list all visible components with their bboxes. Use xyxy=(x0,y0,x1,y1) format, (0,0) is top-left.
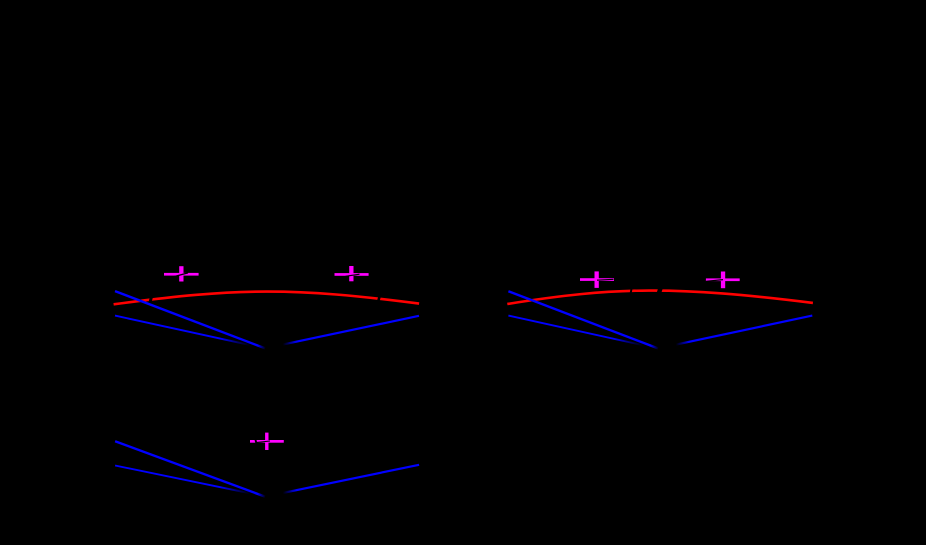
panel 1: incoming ray B xyxy=(115,316,250,346)
panel 2: errorbar marker M3 xyxy=(580,271,614,288)
panel 1: errorbar marker M2 xyxy=(335,266,369,281)
panel 2: errorbar marker M4 xyxy=(706,272,740,289)
panel 1: gap in arc (black ray crossing) at x=375 xyxy=(378,293,381,304)
panel 2: incoming ray A xyxy=(508,291,658,348)
panel 1: gap in arc (black ray crossing) at x=151 xyxy=(149,295,152,306)
panel 3: errorbar marker M5 xyxy=(250,433,284,450)
panel 3 (bottom-left): incoming ray A xyxy=(115,441,265,496)
panel 2: outgoing ray C xyxy=(659,316,812,349)
panel 1 (top-left): mirror arc xyxy=(114,292,420,305)
panel 2: gap in arc at x=660 xyxy=(658,285,662,296)
panel 3: outgoing ray C xyxy=(266,465,419,497)
panel 1: errorbar marker M1 xyxy=(164,266,199,281)
panel 2: gap in arc at x=631 xyxy=(630,286,632,297)
panel 2: incoming ray B xyxy=(508,316,643,346)
panel 3: incoming ray B xyxy=(115,466,250,494)
panel 2 (top-right): mirror arc xyxy=(507,291,813,304)
panel 1: outgoing ray C xyxy=(266,316,419,348)
panel 1: incoming ray A xyxy=(115,291,265,348)
